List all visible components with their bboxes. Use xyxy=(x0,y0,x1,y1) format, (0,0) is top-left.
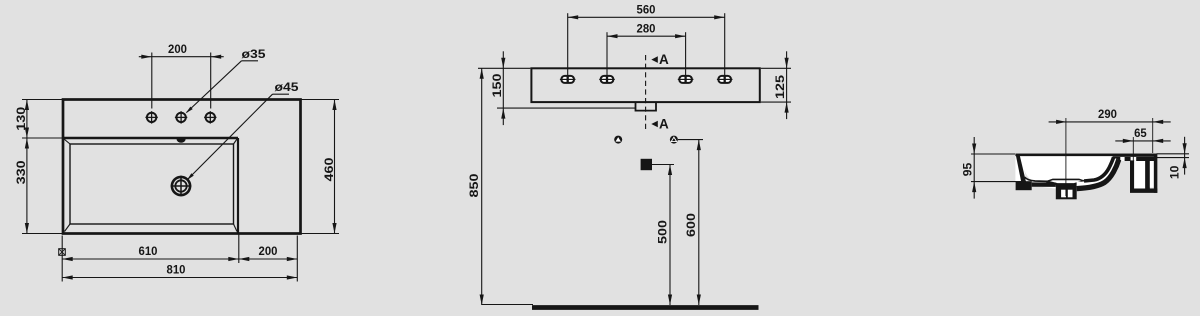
svg-text:290: 290 xyxy=(1098,107,1117,121)
svg-text:500: 500 xyxy=(655,220,669,244)
svg-text:560: 560 xyxy=(637,3,656,17)
svg-text:65: 65 xyxy=(1134,126,1147,140)
svg-text:ø35: ø35 xyxy=(242,47,266,61)
svg-text:850: 850 xyxy=(467,173,481,197)
svg-text:130: 130 xyxy=(14,107,28,131)
svg-text:600: 600 xyxy=(684,213,698,237)
svg-text:330: 330 xyxy=(14,160,28,184)
svg-text:200: 200 xyxy=(168,42,187,56)
svg-text:810: 810 xyxy=(167,263,186,277)
svg-text:ø45: ø45 xyxy=(275,80,299,94)
svg-text:A: A xyxy=(659,117,669,132)
svg-text:200: 200 xyxy=(259,244,278,258)
svg-text:280: 280 xyxy=(637,21,656,35)
svg-text:125: 125 xyxy=(773,75,787,99)
svg-text:460: 460 xyxy=(322,157,336,181)
svg-text:610: 610 xyxy=(139,244,158,258)
svg-text:10: 10 xyxy=(1168,166,1182,180)
svg-text:A: A xyxy=(659,52,669,67)
svg-text:95: 95 xyxy=(961,163,975,177)
svg-text:150: 150 xyxy=(490,73,504,97)
